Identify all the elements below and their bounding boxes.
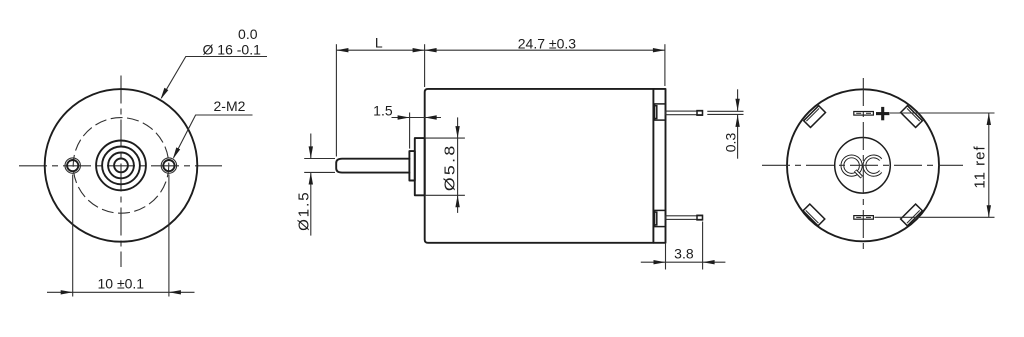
vent slot bottom-left (803, 204, 825, 226)
extension line bottom pin (11 ref) (875, 216, 995, 218)
endcap joint line (652, 89, 654, 243)
extension line pin tip (3.8) (702, 222, 704, 270)
front view vertical centerline (120, 76, 122, 268)
dimension line 10 ±0.1 (47, 290, 195, 294)
bottom terminal pin (666, 215, 703, 220)
vent slot bottom-right (901, 204, 923, 226)
svg-text:Ø 16 -0.1: Ø 16 -0.1 (203, 42, 262, 58)
extension lines Ø5.8 (425, 138, 465, 195)
front view horizontal centerline (19, 165, 222, 167)
svg-text:2-M2: 2-M2 (214, 98, 246, 114)
svg-text:Ø1.5: Ø1.5 (296, 190, 313, 231)
extension lines 0.3 (pin thickness) (707, 111, 743, 114)
shaft collar (409, 151, 414, 180)
svg-text:L: L (375, 34, 383, 50)
front view bolt pitch circle (dashed) (73, 118, 169, 214)
extension line right hole (168, 175, 170, 297)
left mounting hole M2 (65, 158, 80, 173)
bottom terminal block (653, 210, 665, 226)
QC stamp circle (835, 138, 891, 194)
dimension line Ø1.5 (309, 134, 313, 236)
label Ø1.5 (rotated) (296, 190, 313, 231)
extension line collar front (409, 113, 411, 149)
polarity plus mark (876, 107, 889, 120)
extension lines Ø1.5 (304, 159, 335, 173)
label 1.5 (373, 102, 393, 118)
front bearing circle r13 (108, 153, 134, 179)
label 0.3 (rotated) (722, 133, 738, 153)
leader line 2-M2 (174, 115, 253, 158)
label 10 ±0.1 (97, 276, 144, 292)
leader line Ø16 tolerance (162, 57, 268, 98)
rear view horizontal centerline (762, 164, 963, 166)
bearing boss Ø5.8 (415, 138, 425, 195)
label 3.8 (674, 245, 694, 261)
dimension line 0.3 (735, 89, 739, 158)
front bearing boss circle r25 (96, 141, 146, 191)
svg-text:Ø5.8: Ø5.8 (442, 143, 458, 191)
extension line top pin (11 ref) (890, 112, 995, 114)
motor body can (425, 89, 666, 243)
front bearing circle r19 (102, 147, 140, 185)
svg-text:3.8: 3.8 (674, 245, 694, 261)
dimension line 11 ref (987, 113, 991, 217)
svg-text:11 ref: 11 ref (971, 145, 988, 188)
QC letters (842, 156, 880, 177)
svg-text:0.3: 0.3 (722, 133, 738, 153)
label 24.7 ±0.3 (518, 36, 576, 52)
extension line mounting face (424, 44, 426, 87)
extension line rear face lower (3.8) (665, 243, 667, 270)
extension line shaft tip (335, 44, 337, 156)
leader arrow Ø16 (161, 88, 169, 100)
label 2-M2 (214, 98, 246, 114)
rear view outer circle (787, 89, 939, 241)
dimension line 3.8 (641, 260, 726, 264)
extension line left hole (72, 175, 74, 297)
label 11 ref (rotated) (971, 145, 988, 188)
top terminal block (653, 104, 665, 120)
vent slot top-left (804, 106, 826, 128)
vent slot top-right (901, 106, 923, 128)
extension line rear face (664, 44, 666, 86)
label Ø5.8 (rotated) (442, 143, 458, 191)
dimension line 1.5 (392, 115, 442, 119)
leader arrow 2-M2 (173, 147, 180, 159)
dimension line L and 24.7 (336, 48, 665, 52)
rear bottom terminal tab (854, 216, 874, 220)
front view outer circle (Ø16 body) (45, 89, 198, 242)
svg-text:24.7 ±0.3: 24.7 ±0.3 (518, 36, 576, 52)
rear top terminal tab (854, 112, 874, 116)
right mounting hole M2 (161, 158, 176, 173)
motor shaft (336, 159, 409, 173)
svg-text:10 ±0.1: 10 ±0.1 (97, 276, 144, 292)
svg-text:0.0: 0.0 (238, 26, 258, 42)
rear view vertical centerline (862, 78, 864, 253)
svg-text:1.5: 1.5 (373, 102, 393, 118)
label Ø16 0.0/-0.1 (203, 26, 262, 58)
label L (375, 34, 383, 50)
top terminal pin (666, 111, 703, 116)
dimension line Ø5.8 (455, 117, 459, 212)
front shaft circle r7 (114, 159, 128, 173)
